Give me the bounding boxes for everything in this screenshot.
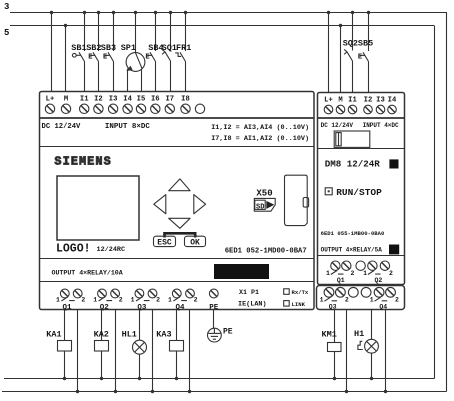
svg-text:1: 1 [326, 270, 330, 277]
svg-text:DC 12/24V: DC 12/24V [321, 122, 354, 129]
contactor coil KM1 [328, 343, 342, 352]
svg-text:6ED1 052-1MD00-0BA7: 6ED1 052-1MD00-0BA7 [225, 248, 307, 256]
svg-text:I7: I7 [165, 96, 174, 104]
svg-text:Q1: Q1 [337, 277, 345, 284]
svg-text:HL1: HL1 [122, 330, 137, 340]
svg-text:SP1: SP1 [121, 43, 136, 53]
svg-text:I4: I4 [123, 96, 132, 104]
svg-text:M: M [338, 97, 342, 105]
svg-text:I7,I8 = AI1,AI2 (0..10V): I7,I8 = AI1,AI2 (0..10V) [211, 135, 309, 143]
wire U1 Q2-1 to KA2 [101, 310, 103, 341]
wire rail 3 right descent [446, 13, 448, 392]
wire M drop [65, 26, 67, 92]
wire bottom rail A (to rail 5) [4, 378, 435, 380]
svg-text:SQ1: SQ1 [162, 43, 177, 53]
LOGO! main module U1 body [40, 92, 315, 310]
svg-text:I3: I3 [109, 96, 118, 104]
wire U1 Q1-1 to KA1 [64, 310, 66, 341]
svg-text:1: 1 [320, 297, 324, 304]
U2 lower terminal block body [317, 286, 405, 310]
U1 ESC button [154, 236, 176, 246]
svg-text:X50: X50 [256, 188, 272, 198]
U1 OK button [185, 236, 206, 246]
svg-text:OUTPUT 4×RELAY/5A: OUTPUT 4×RELAY/5A [321, 247, 383, 254]
U1 divider above output terminals [40, 281, 315, 283]
svg-text:INPUT 4×DC: INPUT 4×DC [363, 122, 399, 129]
U2 divider above output terminals [318, 255, 405, 257]
svg-text:I4: I4 [388, 97, 397, 105]
U1 output terminal Q4 [172, 289, 194, 298]
wire H1 to bottom rail A [371, 353, 373, 378]
svg-text:SB1: SB1 [71, 43, 86, 53]
U1 RxTx checkbox [284, 289, 290, 295]
U1 output terminal Q2 [98, 289, 120, 298]
svg-text:2: 2 [389, 270, 393, 277]
relay coil KA1 [58, 341, 72, 352]
svg-text:SD: SD [256, 203, 264, 211]
wire rail 3 horizontal [10, 12, 447, 14]
U2 spare terminals lower [348, 287, 358, 297]
svg-text:FR1: FR1 [176, 43, 191, 53]
wire U1 Q4-2 to bottom rail B [189, 310, 191, 392]
svg-text:RUN/STOP: RUN/STOP [336, 187, 382, 198]
U2 black square top [389, 159, 398, 168]
svg-text:2: 2 [119, 296, 123, 303]
U1 SD card icon [254, 198, 275, 211]
U1 keypad up arrow [169, 179, 190, 191]
wire KM1 to bottom rail A [334, 352, 336, 379]
U1 input screw terminals [45, 104, 204, 113]
svg-text:2: 2 [81, 296, 85, 303]
limit switch SQ1 [162, 13, 170, 92]
U2 output terminal Q3 [324, 287, 345, 297]
svg-text:2: 2 [351, 270, 355, 277]
svg-text:SB3: SB3 [101, 43, 116, 53]
wire bottom rail B (to rail 3) [2, 391, 447, 393]
protective earth symbol PE [208, 328, 222, 342]
svg-text:I2: I2 [94, 96, 103, 104]
U1 divider under input text [40, 146, 315, 148]
svg-text:1: 1 [131, 296, 135, 303]
svg-text:E: E [145, 54, 149, 62]
svg-text:KA2: KA2 [94, 330, 109, 340]
potentiometer sensor SP1 [126, 13, 145, 92]
U2 divider under input terminals [318, 117, 405, 119]
U1 PE terminal [209, 289, 218, 298]
svg-text:2: 2 [395, 297, 399, 304]
relay coil KA3 [170, 341, 184, 352]
svg-text:2: 2 [345, 297, 349, 304]
wire U1 Q3-2 to bottom rail B [152, 310, 154, 392]
U1 output terminal Q1 [60, 289, 82, 298]
svg-text:I5: I5 [137, 96, 146, 104]
svg-text:I3: I3 [376, 97, 385, 105]
lamp H1 [365, 339, 379, 353]
svg-text:6ED1 055-1MB00-0BA0: 6ED1 055-1MB00-0BA0 [321, 230, 385, 237]
svg-text:E: E [358, 54, 362, 62]
svg-text:3: 3 [4, 2, 9, 12]
junction dots on bottom rail B [76, 390, 387, 393]
wire U1 Q1-2 to bottom rail B [77, 310, 79, 392]
svg-text:OUTPUT 4×RELAY/10A: OUTPUT 4×RELAY/10A [52, 269, 123, 276]
svg-text:1: 1 [93, 296, 97, 303]
svg-text:KA3: KA3 [156, 330, 171, 340]
svg-text:L+: L+ [46, 96, 55, 104]
wire KA2 to bottom rail A [101, 351, 103, 379]
svg-text:LOGO!: LOGO! [56, 243, 91, 256]
svg-text:M: M [64, 96, 68, 104]
wire rail 5 right descent [434, 26, 436, 379]
svg-text:2: 2 [194, 296, 198, 303]
svg-text:H1: H1 [354, 329, 364, 339]
wire U1 Q4-1 to KA3 [176, 310, 178, 341]
svg-text:E: E [103, 54, 107, 62]
svg-text:I1: I1 [348, 97, 357, 105]
U2 divider under connector [318, 148, 405, 150]
pushbutton SB5 [360, 13, 369, 93]
svg-text:DC 12/24V: DC 12/24V [42, 123, 82, 131]
svg-text:SIEMENS: SIEMENS [55, 156, 112, 169]
svg-text:I6: I6 [151, 96, 160, 104]
U2 RUN/STOP icon [325, 188, 332, 195]
U1 barcode block [214, 264, 269, 279]
svg-text:12/24RC: 12/24RC [97, 246, 126, 254]
svg-text:SB2: SB2 [86, 43, 101, 53]
U1 keypad left arrow [154, 195, 166, 214]
svg-text:SQ2: SQ2 [343, 39, 358, 49]
svg-text:DM8 12/24R: DM8 12/24R [325, 159, 381, 170]
svg-text:1: 1 [363, 270, 367, 277]
svg-text:2: 2 [156, 296, 160, 303]
U2 output terminal Q2 [368, 261, 390, 270]
svg-text:Q2: Q2 [374, 277, 382, 284]
U1 LCD display [57, 176, 139, 240]
svg-text:5: 5 [4, 28, 9, 38]
svg-text:LINK: LINK [292, 301, 306, 308]
thermal relay contact FR1 [175, 13, 185, 92]
svg-text:OK: OK [190, 239, 200, 248]
svg-text:INPUT 8×DC: INPUT 8×DC [105, 123, 151, 131]
U1 expansion connector [285, 175, 308, 225]
wire M drop (DM8) [340, 26, 342, 93]
svg-text:SB5: SB5 [358, 39, 373, 49]
wire rail 5 horizontal [10, 25, 434, 27]
svg-text:Q1: Q1 [62, 304, 72, 312]
wire U2 Q3-1 to KM1 [334, 310, 336, 343]
wire KA1 to bottom rail A [64, 351, 66, 379]
svg-text:PE: PE [223, 327, 233, 336]
junction dots on rail 3 [50, 11, 370, 14]
pushbutton SB4 [147, 13, 155, 92]
junction dots on bottom rail A [63, 377, 373, 380]
svg-text:I8: I8 [181, 96, 190, 104]
wire U1 Q2-2 to bottom rail B [115, 310, 117, 392]
wire KA3 to bottom rail A [176, 351, 178, 379]
wire U1 PE to earth [213, 310, 215, 329]
U1 divider under input terminals [40, 117, 315, 119]
wire HL1 to bottom rail A [139, 354, 141, 378]
U2 spare terminal [356, 261, 365, 270]
svg-text:Q3: Q3 [329, 303, 337, 310]
wire U2 Q4-1 to H1 [371, 310, 373, 340]
lamp HL1 [133, 340, 147, 354]
svg-text:I2: I2 [364, 97, 373, 105]
svg-text:IE(LAN): IE(LAN) [238, 301, 267, 309]
U2 expansion connector [334, 131, 370, 147]
svg-text:E: E [88, 54, 92, 62]
limit switch SQ2 [344, 13, 352, 93]
svg-text:L+: L+ [324, 97, 333, 105]
svg-text:I1: I1 [80, 96, 89, 104]
svg-text:X1 P1: X1 P1 [239, 289, 259, 297]
wire U1 Q3-1 to HL1 [139, 310, 141, 341]
U2 output terminal Q4 [374, 287, 395, 297]
wire L+ drop [51, 13, 53, 92]
U2 black square bottom [389, 245, 399, 255]
U1 bracket over ESC OK [165, 233, 196, 237]
U1 keypad right arrow [194, 195, 206, 214]
U1 output terminal Q3 [135, 289, 157, 298]
U1 keypad down arrow [169, 218, 190, 228]
svg-text:Q4: Q4 [379, 303, 387, 310]
pushbutton SB2 [90, 13, 98, 92]
svg-text:1: 1 [56, 296, 60, 303]
junction dots on rail 5 [64, 24, 342, 27]
pushbutton SB3 [105, 13, 114, 92]
wire U2 Q3-2 to bottom rail B [346, 310, 348, 392]
U2 input screw terminals [324, 105, 396, 114]
svg-text:I1,I2 = AI3,AI4 (0..10V): I1,I2 = AI3,AI4 (0..10V) [211, 124, 309, 132]
svg-text:ESC: ESC [157, 239, 172, 248]
U1 LINK checkbox [284, 301, 290, 307]
relay coil KA2 [95, 341, 109, 352]
H1 flasher mark [358, 341, 363, 349]
U1 divider above output text [40, 258, 315, 260]
svg-text:KM1: KM1 [322, 330, 337, 340]
wire L+ drop (DM8) [328, 13, 330, 93]
DM8 expansion module U2 body [318, 93, 405, 285]
svg-text:Rx/Tx: Rx/Tx [292, 289, 309, 296]
svg-text:KA1: KA1 [46, 330, 61, 340]
pushbutton SB1 [72, 13, 84, 92]
U2 output terminal Q1 [331, 261, 351, 270]
svg-text:1: 1 [370, 297, 374, 304]
svg-text:1: 1 [168, 296, 172, 303]
U1 input terminal labels [46, 96, 190, 104]
U2 input terminal labels [324, 97, 397, 105]
svg-text:Q3: Q3 [137, 304, 147, 312]
wire U2 Q4-2 to bottom rail B [385, 310, 387, 392]
